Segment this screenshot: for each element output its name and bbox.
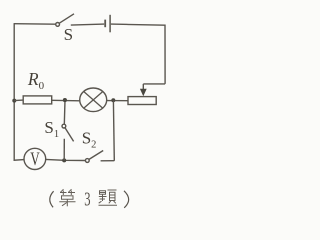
caption character di (第): [59, 189, 75, 206]
switch S: [56, 14, 74, 26]
svg-text:S1: S1: [44, 118, 59, 140]
svg-text:S: S: [64, 25, 73, 44]
wire lamp to rheostat: [106, 100, 128, 102]
resistor R0: [23, 96, 52, 104]
svg-text:3: 3: [84, 188, 90, 211]
wire left rail: [13, 24, 15, 161]
node R0-left junction: [12, 99, 16, 103]
caption parenthesis right: [124, 191, 129, 208]
caption parenthesis left: [50, 191, 54, 207]
svg-text:V: V: [30, 150, 40, 170]
voltmeter V: [24, 148, 46, 169]
wire left rail to R0: [14, 99, 23, 102]
wire bottom voltmeter to S2: [46, 159, 86, 160]
node S1 top junction: [63, 98, 67, 102]
wire R0 to lamp: [52, 99, 80, 102]
battery cell: [105, 15, 110, 33]
switch S1: [62, 100, 74, 160]
wire switch to battery: [71, 24, 104, 25]
wire S2 right contact: [101, 160, 115, 162]
svg-text:S2: S2: [82, 128, 97, 150]
switch S2: [85, 151, 103, 163]
caption character ti (题): [99, 190, 118, 205]
rheostat body: [128, 97, 156, 105]
wire jog to wiper: [143, 83, 165, 85]
wire S2 rail down: [112, 101, 115, 161]
node S1 bottom junction: [62, 158, 66, 162]
wire battery to top-right corner and right rail: [111, 24, 165, 84]
svg-text:R0: R0: [27, 69, 45, 92]
wire top left segment: [14, 23, 56, 26]
node lamp-right junction: [111, 98, 115, 102]
wire bottom-left corner to voltmeter: [14, 159, 24, 162]
lamp: [80, 88, 107, 112]
rheostat wiper arrow: [140, 84, 147, 96]
